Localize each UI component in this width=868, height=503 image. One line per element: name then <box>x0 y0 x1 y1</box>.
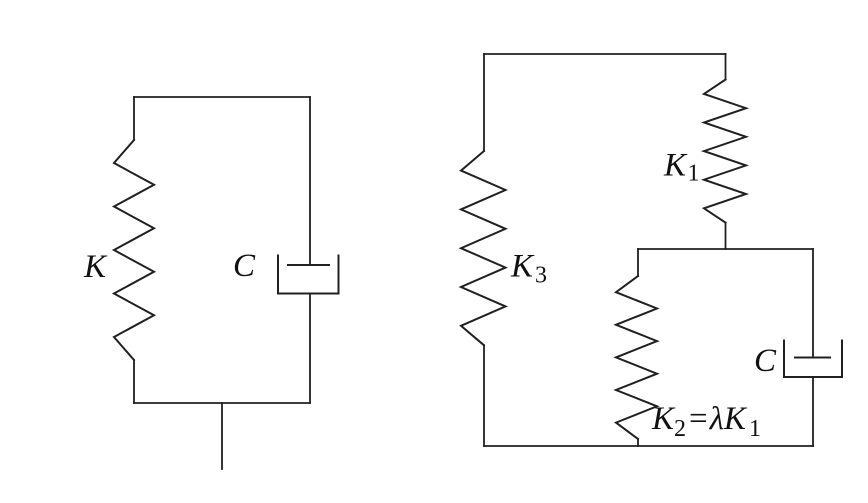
damper C piston plate <box>288 264 329 266</box>
wire: inner-right vertical / piston rod into damper C <box>812 249 814 358</box>
svg-text:K1: K1 <box>663 148 700 187</box>
spring K1 <box>704 80 746 223</box>
svg-text:C: C <box>233 248 256 284</box>
wire: top bar of left model <box>134 96 310 98</box>
wire: rod below damper C to bottom bar <box>309 294 311 404</box>
damper C cylinder cup <box>278 256 339 294</box>
wire: left vertical below spring K3 <box>483 345 485 446</box>
spring K <box>114 140 154 360</box>
wire: vertical from spring K1 down to inner box <box>725 223 727 249</box>
wire: right vertical above spring K1 <box>725 54 727 80</box>
wire: inner-left vertical below spring K2 <box>637 439 639 446</box>
wire: top bar of right model <box>484 53 726 55</box>
wire: right vertical / piston rod into damper C <box>309 97 311 265</box>
svg-text:K: K <box>83 249 108 285</box>
svg-text:K2=λK1: K2=λK1 <box>651 401 761 442</box>
spring K3 <box>461 151 506 345</box>
wire: left vertical above spring K3 <box>483 54 485 151</box>
wire: bottom bar of right model <box>484 445 813 447</box>
damper C (right) piston plate <box>795 357 830 359</box>
wire: top bar of inner box <box>638 248 813 250</box>
wire: rod below right damper C to bottom bar <box>812 377 814 446</box>
svg-text:C: C <box>754 343 777 379</box>
wire: output rod hanging from bottom bar <box>221 403 223 469</box>
svg-text:K3: K3 <box>510 249 547 289</box>
spring K2 <box>616 276 657 439</box>
wire: left vertical below spring K <box>133 360 135 403</box>
wire: left vertical above spring K <box>133 97 135 140</box>
wire: inner-left vertical above spring K2 <box>637 249 639 276</box>
wire: bottom bar of left model <box>134 402 310 404</box>
damper C (right) cylinder cup <box>784 341 842 378</box>
